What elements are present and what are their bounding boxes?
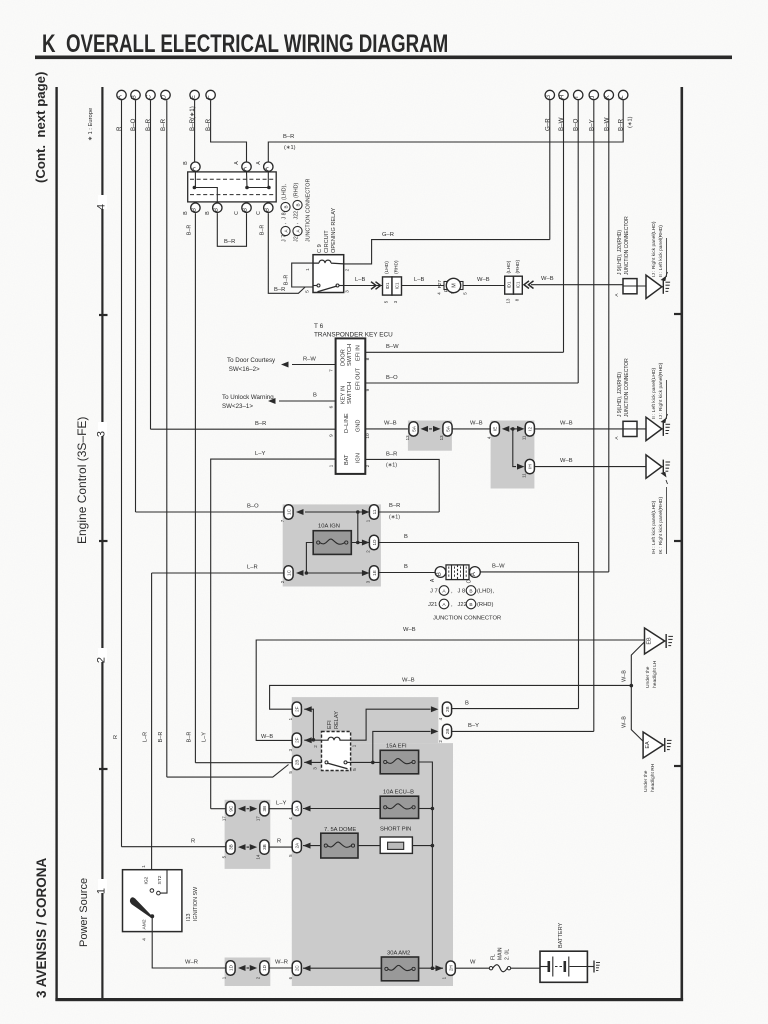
svg-text:(RHD): (RHD) (394, 260, 400, 274)
svg-text:B: B (283, 205, 288, 208)
connector oval 3B a (260, 802, 269, 816)
svg-text:IGN: IGN (356, 453, 362, 463)
svg-text:B–R: B–R (274, 287, 285, 293)
junction connector J9/J20 square 2 (623, 421, 637, 436)
svg-text:IJ : Right kick panel(RHD): IJ : Right kick panel(RHD) (658, 362, 664, 419)
svg-text:JUNCTION CONNECTOR: JUNCTION CONNECTOR (624, 358, 630, 417)
svg-text:SW<16–2>: SW<16–2> (229, 366, 260, 373)
title underline (35, 56, 732, 60)
svg-text:IG2: IG2 (143, 876, 149, 884)
ECU T6 transponder key ecu box (336, 338, 366, 474)
wire to battery (511, 967, 540, 969)
svg-text:(∗1): (∗1) (628, 116, 634, 128)
svg-text:J 7: J 7 (430, 589, 438, 595)
svg-text:W–B: W–B (622, 716, 628, 728)
connector oval 3B b (226, 840, 235, 854)
wire B-W efi in (365, 351, 563, 353)
svg-text:2H: 2H (449, 965, 454, 971)
svg-text:3B: 3B (262, 844, 267, 850)
section divider line (101, 87, 103, 1001)
wire from EFI relay pin 5 (351, 761, 381, 763)
svg-text:2. 0L: 2. 0L (505, 949, 511, 960)
connector oval 2A row L-Y (292, 801, 301, 815)
terminal D circle (161, 90, 170, 99)
wire B-R bus D to 2B diagonal (167, 765, 289, 778)
connector oval top-right (369, 505, 378, 519)
svg-text:11: 11 (521, 435, 526, 440)
svg-text:T 6: T 6 (314, 323, 324, 330)
svg-text:J: J (589, 96, 596, 99)
svg-text:2B: 2B (295, 760, 300, 766)
svg-text:5: 5 (305, 290, 311, 293)
svg-text:R: R (113, 735, 119, 739)
svg-text:B–W: B–W (492, 564, 505, 570)
svg-text:7. 5A DOME: 7. 5A DOME (324, 827, 356, 833)
svg-text:B: B (436, 572, 443, 576)
svg-text:G: G (545, 95, 552, 100)
connector oval 3B c (260, 840, 269, 854)
svg-text:17: 17 (222, 816, 227, 821)
wire L-B from relay pin 3 (344, 285, 383, 287)
connector oval top-left (284, 505, 293, 519)
wire W-B to junction connector square 2 (534, 428, 623, 430)
svg-text:13: 13 (506, 298, 511, 303)
svg-text:3B: 3B (262, 806, 267, 812)
connector oval bottom-right (369, 566, 378, 580)
svg-text:B: B (205, 211, 211, 215)
svg-text:B: B (295, 203, 300, 206)
wire B-R bus from E to junction connector (194, 100, 196, 161)
svg-text:14: 14 (255, 854, 260, 859)
svg-text:(RHD): (RHD) (294, 183, 300, 198)
wire B-R bus E join (195, 762, 292, 764)
connector oval 2F top (292, 702, 301, 716)
section number 2 (98, 648, 107, 662)
connector oval 2H (446, 961, 455, 975)
wire G-R bus from G (549, 100, 551, 239)
svg-text:W–R: W–R (275, 960, 288, 966)
terminal G circle (545, 90, 554, 99)
svg-text:L–Y: L–Y (276, 801, 286, 807)
wire W-B upper long run (256, 640, 644, 740)
connector oval 2A row R (292, 838, 301, 852)
wire B-R from junction connector pin B4 to relay (268, 213, 313, 293)
svg-text:headlight RH: headlight RH (650, 763, 656, 792)
svg-text:1: 1 (352, 744, 358, 747)
svg-text:EFI: EFI (327, 720, 333, 729)
svg-text:C: C (146, 94, 153, 99)
svg-text:To Unlock Warning: To Unlock Warning (222, 394, 274, 401)
svg-text:B: B (465, 701, 469, 707)
ground triangle IH row (646, 455, 662, 478)
svg-text:B–R: B–R (386, 452, 397, 458)
connector oval 5A right (443, 422, 452, 436)
junction connector J9/J20 square (623, 279, 637, 294)
svg-text:W–R: W–R (185, 960, 198, 966)
svg-text:W–B: W–B (560, 458, 573, 464)
svg-text:FL: FL (491, 954, 497, 960)
wire to ground triangle 1 (623, 285, 646, 287)
terminal B circle (131, 90, 140, 99)
terminal C circle (146, 90, 155, 99)
svg-text:1E: 1E (372, 570, 377, 576)
svg-text:A: A (234, 161, 240, 165)
wire across top of fuse block (305, 511, 369, 513)
section number 4 (98, 195, 107, 209)
svg-text:2: 2 (96, 657, 108, 663)
svg-text:BAT: BAT (344, 454, 350, 465)
svg-text:SWITCH: SWITCH (347, 344, 353, 366)
svg-text:Under the: Under the (645, 666, 651, 688)
wire B-R d-line (151, 428, 336, 430)
page connector arrows left (524, 281, 534, 289)
svg-text:JUNCTION CONNECTOR: JUNCTION CONNECTOR (624, 216, 630, 275)
svg-text:2F: 2F (295, 737, 300, 743)
section number 3 (98, 422, 107, 436)
svg-text:B: B (469, 589, 472, 595)
svg-text:10A IGN: 10A IGN (318, 524, 340, 530)
svg-text:2: 2 (345, 268, 351, 271)
svg-text:I2: I2 (528, 427, 533, 431)
wire W-B lower long run (270, 685, 632, 709)
wire DOME connections (303, 845, 321, 847)
wire B unlock warning (279, 400, 336, 402)
svg-text:∗ 1 : Europe: ∗ 1 : Europe (88, 108, 94, 141)
svg-text:13: 13 (439, 435, 444, 440)
svg-text:L–B: L–B (414, 277, 424, 283)
svg-text:F27: F27 (437, 280, 443, 289)
svg-text:9C: 9C (228, 805, 233, 812)
connector oval 9C (226, 802, 235, 816)
svg-text:B: B (263, 208, 270, 212)
svg-text:EB: EB (647, 637, 653, 645)
svg-text:IGNITION SW: IGNITION SW (193, 886, 199, 921)
svg-text:SHORT PIN: SHORT PIN (380, 827, 411, 833)
svg-text:D–LINE: D–LINE (344, 413, 350, 433)
connector oval IH (525, 459, 534, 473)
connector oval 2F lower (292, 733, 301, 747)
svg-text:C: C (256, 211, 262, 215)
wire L-Y bat (211, 459, 336, 809)
battery cells (540, 966, 549, 968)
svg-text:10A ECU–B: 10A ECU–B (383, 790, 414, 796)
wire 30A AM2 row (303, 967, 381, 969)
svg-text:IH : Left kick panel(LHD): IH : Left kick panel(LHD) (651, 500, 657, 554)
wire L-Y label (269, 808, 292, 810)
connector ID1/IC1 (LHD/RHD) left (383, 277, 393, 295)
connector oval 2C (292, 961, 301, 975)
svg-text:W: W (470, 960, 476, 966)
connector oval 2B out B (442, 702, 451, 716)
svg-text:2B: 2B (445, 729, 450, 735)
terminal E circle (190, 90, 199, 99)
svg-text:B: B (404, 564, 408, 570)
right page border (681, 87, 684, 1001)
L-Y feed from bus (211, 808, 226, 810)
section tick marks (99, 314, 681, 769)
svg-text:DOOR: DOOR (341, 349, 347, 366)
svg-text:(RHD): (RHD) (477, 602, 493, 608)
shaded connector area 2 (491, 421, 535, 489)
connector oval bottom-left (284, 566, 293, 580)
svg-text:1D: 1D (262, 964, 267, 971)
svg-text:3: 3 (345, 290, 351, 293)
svg-text:B–O: B–O (247, 504, 259, 510)
svg-text:B: B (183, 161, 189, 165)
svg-text:W–B: W–B (384, 421, 397, 427)
svg-text:C: C (467, 579, 473, 583)
svg-text:R: R (277, 839, 281, 845)
svg-text:J 9(LHD), J20(RHD): J 9(LHD), J20(RHD) (617, 230, 623, 275)
ignition switch ST2 stub (160, 870, 167, 893)
connector oval ID b (260, 961, 269, 975)
wire B-O efi out (365, 382, 578, 384)
svg-text:IE: IE (493, 427, 498, 431)
svg-text:1D: 1D (228, 964, 233, 971)
ground triangle gnd row (646, 417, 662, 440)
connector oval IE (490, 422, 499, 436)
svg-text:10: 10 (365, 433, 371, 439)
svg-text:4: 4 (96, 204, 108, 210)
svg-text:F: F (206, 95, 213, 99)
ignition switch terminals (150, 889, 154, 893)
svg-text:L: L (618, 95, 625, 99)
svg-text:To Door Courtesy: To Door Courtesy (227, 357, 276, 364)
relay C9 coil (313, 260, 344, 264)
svg-text:6: 6 (328, 405, 334, 408)
svg-text:JUNCTION CONNECTOR: JUNCTION CONNECTOR (306, 179, 312, 242)
ground triangle fuel pump (646, 275, 662, 298)
svg-text:W–B: W–B (403, 627, 416, 633)
svg-text:SWITCH: SWITCH (347, 382, 353, 404)
svg-text:(Cont. next page): (Cont. next page) (33, 72, 48, 183)
wire G-R from relay pin 2 to terminal G (344, 240, 550, 264)
svg-text:W–B: W–B (470, 421, 483, 427)
svg-text:(LHD),: (LHD), (477, 589, 494, 595)
junction link IE-I2-IH (502, 426, 510, 432)
svg-text:II : Left kick panel(RHD): II : Left kick panel(RHD) (658, 225, 664, 277)
terminal F circle (206, 90, 215, 99)
terminal K circle (604, 90, 613, 99)
connector oval mid-right (369, 535, 378, 549)
wire from 15A EFI right (419, 762, 433, 968)
terminal L circle (619, 90, 628, 99)
wire B-O into fuse block (136, 511, 285, 513)
svg-text:W–B: W–B (402, 678, 415, 684)
relay EFI RELAY box (322, 732, 351, 771)
svg-text:L–B: L–B (355, 277, 365, 283)
svg-text:W–B: W–B (541, 276, 554, 282)
small shaded area ID/ID (225, 958, 271, 987)
svg-text:I: I (573, 96, 580, 98)
svg-text:R: R (191, 839, 195, 845)
terminal H circle (559, 90, 568, 99)
svg-text:(RHD): (RHD) (515, 260, 521, 274)
svg-text:1C: 1C (286, 569, 291, 576)
wire R bus from A (121, 100, 123, 847)
svg-text:1: 1 (305, 268, 311, 271)
svg-text:2B: 2B (445, 706, 450, 712)
svg-text:(LHD): (LHD) (384, 261, 390, 274)
svg-text:L–Y: L–Y (202, 732, 208, 742)
ground triangle EA (643, 732, 663, 758)
ground triangle EB (645, 628, 665, 654)
svg-text:B: B (313, 393, 317, 399)
connector oval I2 (525, 422, 534, 436)
svg-text:3 AVENSIS / CORONA: 3 AVENSIS / CORONA (34, 857, 49, 998)
relay EFI switch (325, 761, 328, 764)
svg-text:B–Y: B–Y (468, 723, 479, 729)
ignition switch I13 box (123, 870, 182, 932)
shaded connector area 1 (408, 421, 452, 451)
svg-text:B–R: B–R (160, 118, 167, 131)
svg-text:2A: 2A (295, 805, 300, 812)
ignition switch lever (130, 897, 152, 917)
svg-text:B–R: B–R (224, 239, 235, 245)
wire W-B split to EB/EA grounds (630, 684, 634, 688)
terminal A circle (117, 90, 126, 99)
wire to ground triangle 2 (623, 428, 646, 430)
svg-text:I13: I13 (186, 914, 192, 922)
svg-text:B–R: B–R (186, 732, 192, 743)
relay C9 switch (317, 284, 320, 287)
wire B-O bus from I (577, 100, 579, 383)
svg-text:ID1: ID1 (385, 282, 390, 289)
svg-text:11: 11 (521, 473, 526, 478)
fuse box main shaded area (292, 697, 439, 743)
wire B to junction connector mid (379, 543, 579, 709)
junction connector top pins A (191, 162, 200, 171)
svg-text:2F: 2F (295, 706, 300, 712)
svg-text:7: 7 (328, 369, 334, 372)
connector oval 2B relay pin3 (292, 755, 301, 769)
svg-text:AM2: AM2 (142, 919, 148, 929)
svg-text:W–B: W–B (261, 734, 273, 740)
svg-text:15A EFI: 15A EFI (386, 744, 407, 750)
svg-text:ST2: ST2 (157, 875, 163, 884)
svg-text:13: 13 (405, 435, 410, 440)
left page border (55, 87, 57, 1001)
junction connector mid box (435, 567, 446, 578)
wire W-B to IE (452, 428, 490, 430)
svg-text:L–Y: L–Y (255, 451, 265, 457)
wire B-W bus from K (608, 100, 610, 572)
wire B-O bus from B (135, 100, 137, 512)
svg-text:headlight LH: headlight LH (652, 660, 658, 688)
junction connector J7/J8 box (188, 172, 277, 202)
svg-text:(∗1): (∗1) (284, 145, 296, 151)
wire B-Y bus from J (593, 100, 595, 731)
svg-text:B–R: B–R (284, 275, 290, 286)
svg-text:, J22: , J22 (294, 211, 300, 224)
svg-text:IK : Right kick panel(RHD): IK : Right kick panel(RHD) (658, 497, 664, 554)
wire B-Y from 2B to J bus (452, 730, 594, 732)
wire W-B IH to ground triangle 3 (534, 466, 646, 468)
svg-text:2: 2 (313, 745, 318, 748)
wire across bottom of fuse block (305, 572, 369, 574)
svg-text:, J 8: , J 8 (451, 589, 465, 595)
wire W-B to body ground (531, 284, 623, 286)
svg-text:R–W: R–W (303, 357, 316, 363)
svg-text:2C: 2C (295, 965, 300, 972)
svg-text:8: 8 (365, 357, 371, 360)
svg-text:Power Source: Power Source (78, 878, 90, 947)
svg-text:B: B (404, 534, 408, 540)
wire B-R ign (365, 459, 439, 512)
svg-text:9: 9 (365, 388, 371, 391)
svg-text:K OVERALL ELECTRICAL WIRING D: K OVERALL ELECTRICAL WIRING DIAGRAM (42, 29, 448, 57)
svg-text:JUNCTION CONNECTOR: JUNCTION CONNECTOR (433, 616, 501, 622)
small shaded area 9C/3B (225, 800, 271, 869)
section number 1 (98, 879, 107, 893)
terminal J circle (589, 90, 598, 99)
svg-text:3: 3 (313, 767, 318, 770)
svg-text:Under the: Under the (643, 770, 649, 792)
terminal I circle (574, 90, 583, 99)
wire B-R bus from C (150, 100, 152, 429)
svg-text:H: H (559, 95, 566, 99)
wire B-R bus from D (166, 100, 168, 777)
wire B-W to K bus (480, 571, 609, 573)
svg-text:GND: GND (356, 420, 362, 432)
wire L-R bus down to ignition switch (151, 573, 153, 891)
svg-text:SW<23–1>: SW<23–1> (222, 403, 253, 410)
wire W-B gnd (365, 428, 409, 430)
svg-text:5A: 5A (445, 425, 450, 432)
wire loop to circuit opening relay pin 1 (292, 263, 313, 287)
svg-text:Engine Control (3S–FE): Engine Control (3S–FE) (75, 417, 89, 544)
relay C9 circuit opening relay box (313, 255, 344, 293)
svg-text:2A: 2A (295, 842, 300, 849)
svg-text:W–B: W–B (560, 421, 573, 427)
svg-text:9: 9 (328, 434, 334, 437)
svg-text:EA: EA (645, 741, 651, 749)
wire from EFI relay pin 1 to 2B (351, 709, 431, 740)
wire B-R(*1) from terminal L across top (268, 100, 623, 161)
svg-text:EFI OUT: EFI OUT (356, 367, 362, 390)
svg-text:W–B: W–B (622, 670, 628, 682)
junction connector internal links (193, 186, 197, 190)
connector oval 2B out B-Y (442, 724, 451, 738)
svg-text:G–R: G–R (382, 232, 394, 238)
svg-text:3: 3 (96, 431, 108, 437)
arrows between ovals (421, 426, 429, 432)
wire B-R from junction connector pin B1 down (194, 213, 196, 763)
svg-text:17: 17 (255, 816, 260, 821)
svg-text:, J22: , J22 (451, 602, 467, 608)
svg-text:M: M (452, 283, 458, 288)
wire B-R U-link pins B2-B3 (217, 213, 246, 246)
svg-text:RELAY: RELAY (334, 711, 340, 729)
svg-text:EFI IN: EFI IN (356, 345, 362, 361)
svg-text:B: B (469, 602, 472, 608)
page connector arrows right (371, 282, 381, 290)
svg-text:IC1: IC1 (515, 281, 520, 288)
svg-text:B: B (242, 208, 249, 212)
svg-text:(∗1): (∗1) (389, 515, 400, 521)
wire W-R from ignition switch (152, 916, 226, 968)
svg-text:B–R: B–R (389, 503, 400, 509)
svg-text:KEY IN: KEY IN (341, 386, 347, 404)
wire B to junction connector (379, 572, 435, 574)
wire W-B from fuel pump (463, 285, 505, 287)
svg-text:1: 1 (141, 865, 147, 868)
svg-text:IC1: IC1 (394, 282, 399, 289)
svg-text:5A: 5A (411, 425, 416, 432)
wire R-W door courtesy (292, 364, 336, 366)
svg-text:L–R: L–R (247, 565, 258, 571)
svg-text:1: 1 (328, 464, 334, 467)
